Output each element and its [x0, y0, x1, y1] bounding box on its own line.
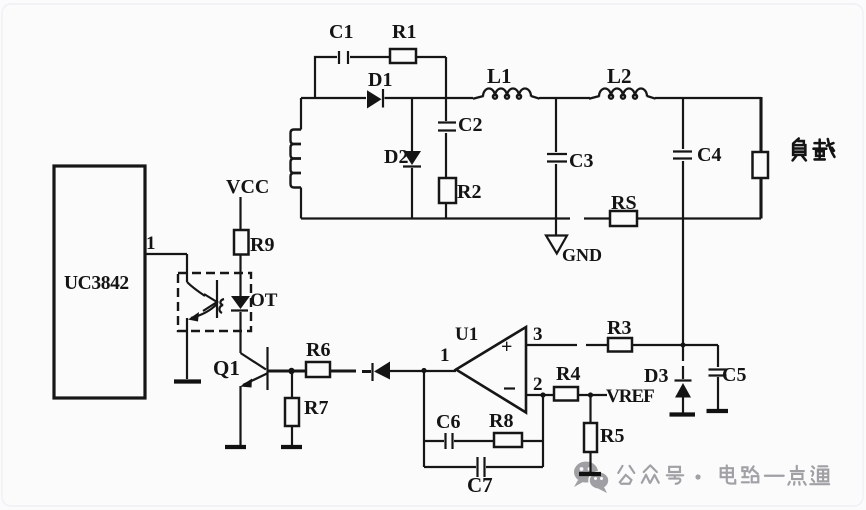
svg-text:C4: C4	[697, 144, 721, 166]
svg-text:GND: GND	[562, 245, 602, 265]
svg-text:R2: R2	[457, 181, 481, 203]
svg-text:R3: R3	[607, 317, 631, 339]
svg-text:OT: OT	[250, 290, 278, 311]
svg-text:R6: R6	[306, 339, 330, 361]
svg-text:C7: C7	[467, 473, 493, 497]
svg-text:C5: C5	[722, 364, 746, 386]
svg-text:1: 1	[440, 345, 450, 366]
svg-text:2: 2	[533, 374, 543, 395]
svg-text:+: +	[501, 336, 512, 358]
svg-text:RS: RS	[611, 192, 637, 214]
svg-text:D3: D3	[644, 365, 668, 387]
svg-text:C1: C1	[329, 21, 353, 43]
svg-text:R5: R5	[600, 425, 624, 447]
svg-text:R7: R7	[304, 397, 328, 419]
svg-text:R1: R1	[392, 21, 416, 43]
svg-text:D1: D1	[368, 69, 392, 91]
svg-text:U1: U1	[455, 324, 478, 345]
svg-text:R9: R9	[250, 234, 274, 256]
svg-text:C2: C2	[458, 114, 482, 136]
svg-text:Q1: Q1	[213, 356, 240, 380]
svg-text:R4: R4	[556, 363, 580, 385]
svg-text:VCC: VCC	[226, 176, 269, 198]
svg-text:R8: R8	[489, 410, 513, 432]
svg-text:C6: C6	[436, 411, 460, 433]
svg-text:3: 3	[533, 324, 543, 345]
svg-text:VREF: VREF	[606, 386, 654, 407]
svg-text:1: 1	[146, 233, 156, 254]
svg-text:UC3842: UC3842	[64, 273, 129, 294]
svg-text:L2: L2	[607, 64, 632, 88]
svg-text:D2: D2	[384, 146, 408, 168]
svg-text:C3: C3	[569, 150, 593, 172]
svg-text:L1: L1	[487, 64, 512, 88]
